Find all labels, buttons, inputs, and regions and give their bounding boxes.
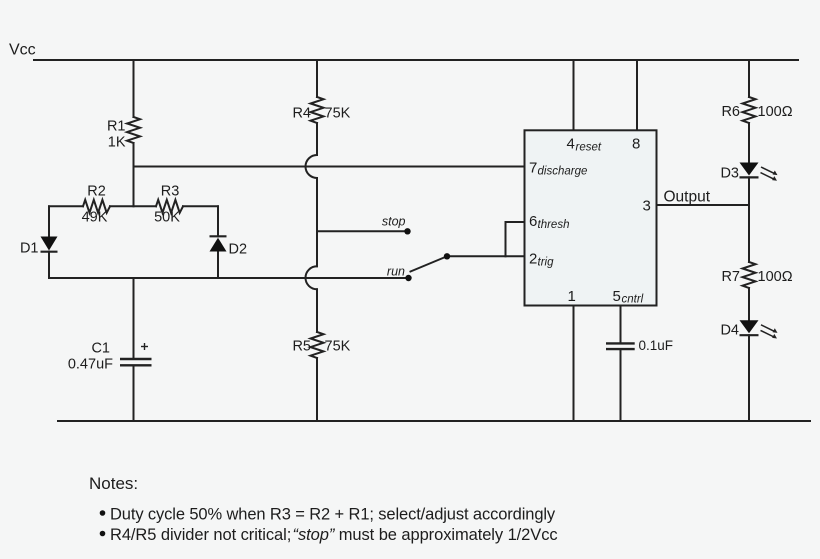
svg-text:R5: R5 (292, 338, 311, 354)
diode D1 (41, 237, 58, 252)
svg-text:8: 8 (632, 136, 640, 153)
svg-text:100Ω: 100Ω (758, 104, 793, 120)
svg-text:R3: R3 (161, 183, 180, 199)
svg-text:D2: D2 (229, 241, 248, 257)
svg-text:stop: stop (382, 215, 406, 229)
note bullet 1 (100, 506, 556, 524)
wire right branch top (748, 60, 750, 97)
resistor R1 label (107, 119, 126, 151)
LED D3 (740, 163, 778, 181)
wire pin 5 lower (620, 350, 622, 421)
pin 5 label (613, 288, 644, 306)
wire R1 branch upper (133, 60, 135, 117)
resistor R5 (311, 332, 324, 358)
wire switch arm (411, 257, 447, 272)
resistor R4 (311, 97, 324, 123)
wire R5 to bottom rail (316, 358, 318, 421)
svg-text:C1: C1 (91, 341, 110, 357)
svg-text:thresh: thresh (538, 219, 570, 231)
svg-text:Duty cycle 50% when R3 = R2 +: Duty cycle 50% when R3 = R2 + R1; select… (110, 506, 556, 524)
wire C1 branch upper (133, 278, 135, 358)
capacitor C2 0.1uF (606, 343, 635, 349)
svg-text:R6: R6 (721, 104, 740, 120)
svg-text:D3: D3 (720, 166, 739, 182)
wire R4 to hop1 (316, 123, 318, 155)
svg-text:49K: 49K (82, 210, 108, 226)
svg-text:50K: 50K (154, 210, 180, 226)
svg-text:2: 2 (529, 251, 537, 268)
svg-text:6: 6 (529, 213, 537, 230)
svg-text:75K: 75K (325, 338, 351, 354)
svg-text:Vcc: Vcc (9, 42, 36, 59)
wire thresh link vertical (505, 222, 507, 256)
wire hop2 to R5 (316, 289, 318, 332)
resistor R3 (156, 200, 183, 213)
svg-text:R4: R4 (292, 105, 311, 121)
resistor R2 (83, 200, 110, 213)
wire left loop vertical lower (48, 252, 50, 278)
switch S1 contacts (404, 228, 450, 281)
resistor R2 label (82, 183, 108, 225)
wire loop top middle (110, 205, 156, 207)
wire hop1 to hop2 (316, 178, 318, 266)
svg-text:7: 7 (529, 160, 537, 177)
wire D4 to bottom rail (748, 335, 750, 421)
pin 6 label (529, 213, 569, 231)
wire right loop vertical upper (217, 206, 219, 236)
wire pin 5 upper (620, 306, 622, 343)
svg-text:R7: R7 (721, 269, 740, 285)
resistor R7 (743, 262, 756, 288)
resistor R3 label (154, 183, 180, 225)
svg-text:100Ω: 100Ω (758, 269, 793, 285)
node 0V bottom rail (58, 420, 810, 422)
svg-text:R1: R1 (107, 119, 126, 135)
wire C1 branch lower (133, 366, 135, 421)
wire loop top left (49, 205, 83, 207)
wire loop top right (183, 205, 218, 207)
wire R7 to D4 (748, 288, 750, 320)
svg-text:R4/R5 divider not critical; “s: R4/R5 divider not critical; “stop” must … (110, 526, 558, 544)
svg-text:discharge: discharge (538, 166, 588, 178)
wire output (657, 204, 750, 206)
pin 4 label (567, 136, 602, 154)
svg-text:Notes:: Notes: (89, 474, 138, 493)
svg-text:D1: D1 (20, 240, 39, 256)
svg-text:5: 5 (613, 288, 621, 305)
wire pin 8 (636, 60, 638, 130)
svg-text:0.47uF: 0.47uF (68, 357, 113, 373)
wire middle branch top (316, 60, 318, 97)
svg-text:75K: 75K (325, 105, 351, 121)
wire hop over discharge line (306, 155, 318, 178)
svg-text:0.1uF: 0.1uF (639, 338, 674, 353)
pin 7 label (529, 160, 587, 178)
note bullet 2 (100, 526, 558, 544)
pin 2 label (529, 251, 554, 269)
resistor R1 (127, 117, 140, 143)
wire right loop vertical lower (217, 252, 219, 279)
wire stop line (317, 230, 405, 232)
svg-text:Output: Output (664, 189, 711, 206)
resistor R6 (743, 97, 756, 123)
wire loop bottom / run line (49, 277, 408, 279)
wire pin 1 (573, 306, 575, 422)
wire R1 to R2/R3 node (133, 143, 135, 206)
svg-text:reset: reset (576, 142, 602, 154)
wire left loop vertical upper (48, 206, 50, 236)
wire discharge line to pin 7 (134, 166, 525, 168)
resistor R4 label (292, 105, 350, 121)
resistor R5 label (292, 338, 350, 354)
resistor R6 label (721, 104, 792, 120)
wire hop over run line (306, 266, 318, 289)
diode D2 (210, 236, 227, 251)
svg-text:D4: D4 (720, 323, 739, 339)
svg-text:run: run (387, 265, 405, 279)
svg-text:4: 4 (567, 136, 575, 153)
capacitor C1 label (68, 341, 113, 373)
wire thresh stub to pin 6 (506, 221, 525, 223)
LED D4 (740, 320, 778, 338)
svg-text:R2: R2 (87, 183, 106, 199)
wire pin 4 (573, 60, 575, 130)
svg-text:trig: trig (538, 257, 555, 269)
wire R6 to D3 (748, 123, 750, 163)
op-amp U1 555 timer body (525, 130, 657, 305)
svg-text:1: 1 (568, 288, 576, 305)
svg-text:3: 3 (643, 198, 651, 215)
capacitor C1 (120, 343, 152, 365)
wire D3 to R7 (748, 177, 750, 262)
resistor R7 label (721, 269, 792, 285)
node Vcc top rail (34, 59, 798, 61)
wire trig line to pin 2 (447, 255, 525, 257)
svg-text:1K: 1K (108, 135, 126, 151)
svg-text:cntrl: cntrl (622, 294, 644, 306)
